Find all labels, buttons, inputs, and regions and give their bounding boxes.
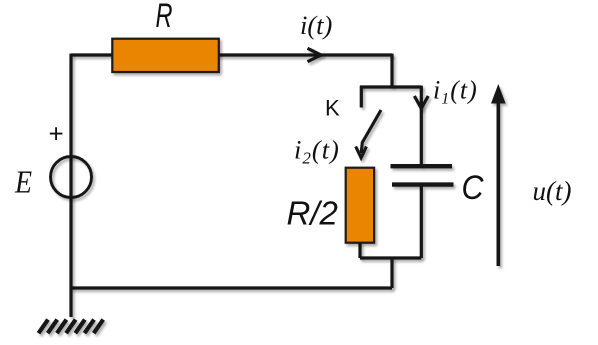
wire: capacitor branch upper segment [420,86,423,166]
switch K blade (open) [361,110,381,153]
svg-text:R/2: R/2 [287,195,338,232]
svg-text:E: E [14,164,32,200]
arrow: i(t) on top wire [308,48,322,61]
svg-text:+: + [49,119,64,149]
svg-text:i(t): i(t) [300,10,333,40]
arrow: i1 current arrowhead [414,96,428,109]
wire: R/2 bottom stub [358,242,361,258]
wire: switch fixed-contact stub [360,86,363,108]
resistor R [112,39,219,72]
svg-text:C: C [462,169,484,207]
arrow: i2 direction on switch blade [356,147,367,158]
arrow: u(t) voltage arrow [491,84,506,266]
svg-text:R: R [156,0,173,35]
svg-text:K: K [325,96,340,121]
voltage source E circle [51,157,92,198]
wire: bottom rail [71,286,392,289]
svg-text:u(t): u(t) [533,176,572,206]
capacitor C top plate [391,164,453,168]
node: top junction bar of parallel branches [360,85,421,88]
wire: left branch through source E down to ground [69,54,72,317]
svg-text:i1(t): i1(t) [433,76,478,108]
ground [39,320,104,334]
wire: top horizontal from source to right corner [71,53,392,56]
capacitor C bottom plate [392,182,454,186]
wire: drop from parallel block to bottom rail [390,258,393,288]
svg-text:i2(t): i2(t) [294,135,340,168]
wire: right vertical drop to parallel junction [390,54,393,87]
wire: capacitor branch lower segment [420,187,423,259]
node: bottom junction bar of parallel branches [360,256,421,259]
resistor R/2 [346,168,374,243]
